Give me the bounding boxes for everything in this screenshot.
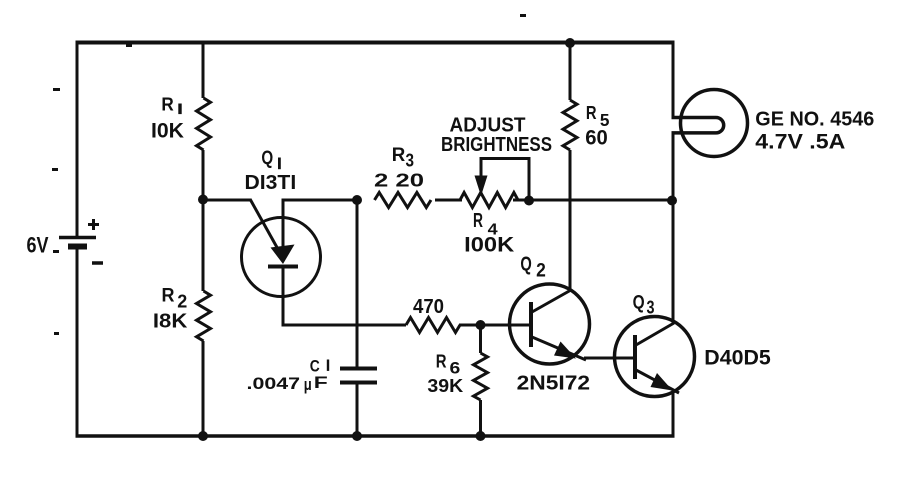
svg-text:R: R [162, 286, 175, 307]
battery minus sign [92, 261, 103, 265]
transistor Q2 circle [510, 284, 590, 364]
wire node C to Q2 base [480, 324, 531, 327]
svg-text:4.7V .5A: 4.7V .5A [755, 131, 845, 154]
Q1 anode lead from top wire [282, 199, 285, 250]
resistor R1 [197, 98, 211, 150]
transistor Q1 circle [242, 218, 321, 297]
svg-text:Q: Q [520, 254, 531, 276]
wire R5 bottom to Q2 collector [569, 150, 572, 291]
wire R5 top lead [569, 42, 572, 100]
label Q1 [261, 147, 280, 169]
resistor R3 [375, 193, 432, 208]
wire R3 to R4 [435, 199, 462, 202]
R4 wiper arrow [475, 158, 488, 196]
node A junction (R1/R2/Q1 gate) [198, 195, 208, 205]
svg-text:3: 3 [406, 151, 415, 171]
lamp filament loop [672, 118, 724, 133]
transistor Q3 circle [615, 317, 695, 397]
wire top rail [76, 41, 675, 45]
svg-text:C: C [310, 357, 320, 375]
svg-text:R: R [436, 352, 447, 372]
svg-text:R: R [586, 102, 597, 123]
label .0047uF [247, 374, 328, 394]
wire R1 top lead [202, 42, 205, 98]
node lamp bottom junction [667, 196, 677, 206]
svg-text:2N5I72: 2N5I72 [517, 373, 591, 395]
Q1 gate diagonal lead [250, 199, 279, 251]
svg-text:R: R [392, 144, 406, 166]
svg-text:Q: Q [261, 147, 273, 169]
wire Q1 cathode to 470 [282, 324, 406, 327]
wire C1 to bottom rail [356, 382, 359, 436]
label Q2 [520, 254, 545, 282]
svg-text:BRIGHTNESS: BRIGHTNESS [441, 134, 552, 156]
wire lamp bottom lead [672, 132, 675, 201]
Q2 base bar [529, 302, 533, 347]
svg-text:Q: Q [633, 291, 645, 313]
resistor 470 [406, 318, 460, 333]
node R4 bracket junction [524, 196, 534, 206]
node C junction (470/R6/Q2 base) [476, 320, 486, 330]
label R3 [392, 144, 414, 171]
wire R4 to lamp node [513, 199, 673, 202]
label C1 [310, 357, 329, 375]
Q3 collector lead [636, 323, 674, 345]
label R5 [586, 102, 610, 130]
svg-text:6V: 6V [27, 233, 49, 258]
Q3 emitter lead with arrow [636, 370, 679, 393]
wire 470 to node C [459, 324, 481, 327]
Q3 base bar [633, 335, 637, 379]
R4 wiper bracket [480, 157, 530, 200]
potentiometer R4 [460, 193, 518, 208]
speckle marks (scan artifacts) [52, 14, 526, 335]
wire left rail upper (battery positive lead) [76, 41, 79, 236]
svg-text:R: R [161, 94, 173, 114]
wire R2 bottom lead [202, 341, 205, 436]
wire Q1 anode to node B [282, 199, 359, 202]
svg-text:I00K: I00K [464, 233, 514, 256]
svg-text:2: 2 [177, 290, 187, 311]
battery plus sign [88, 219, 99, 230]
capacitor C1 bottom plate [340, 381, 377, 385]
wire node C to R6 [479, 325, 482, 353]
label R4 [473, 210, 498, 238]
svg-text:.0047: .0047 [247, 374, 301, 393]
svg-text:I8K: I8K [153, 309, 188, 332]
resistor R6 [474, 353, 488, 400]
node R2 bottom junction [198, 431, 208, 441]
svg-text:μ: μ [304, 375, 312, 394]
wire bottom rail [76, 434, 675, 438]
wire lamp top lead [672, 41, 675, 119]
Q2 emitter lead with arrow [532, 337, 586, 360]
svg-text:39K: 39K [427, 375, 463, 396]
junction C1 bottom [352, 431, 362, 441]
capacitor C1 top plate [340, 367, 377, 371]
Q2 collector lead [532, 290, 571, 312]
lamp DS1 circle [681, 90, 748, 157]
svg-text:D40D5: D40D5 [704, 347, 771, 370]
node R6 bottom junction [476, 431, 486, 441]
wire R1 bottom to node A [202, 150, 205, 200]
svg-text:GE NO. 4546: GE NO. 4546 [755, 107, 874, 130]
resistor R2 [197, 291, 211, 341]
battery B1 negative plate [68, 244, 87, 250]
svg-text:DI3TI: DI3TI [245, 172, 297, 194]
resistor R5 [563, 100, 577, 150]
svg-text:2 20: 2 20 [374, 170, 424, 191]
label Q3 [633, 291, 655, 317]
wire node A to Q1 gate [202, 199, 251, 202]
wire node B down to C1 [356, 200, 359, 368]
node top rail / R5 junction [565, 38, 575, 48]
svg-text:F: F [314, 374, 328, 392]
svg-text:I0K: I0K [151, 119, 184, 142]
node B junction (Q1 anode / C1 / R3) [352, 195, 362, 205]
label R1 [161, 94, 181, 114]
svg-text:470: 470 [413, 296, 444, 318]
label R6 [436, 352, 461, 378]
wire Q3 emitter to bottom rail [672, 392, 675, 437]
wire R6 bottom lead [479, 400, 482, 436]
Q1 cathode lead down [282, 266, 285, 327]
Q1 cathode bar [268, 265, 298, 269]
svg-text:R: R [473, 210, 483, 232]
svg-text:60: 60 [585, 127, 608, 150]
wire Q2 emitter to Q3 base [584, 357, 635, 360]
label R2 [162, 286, 188, 312]
wire left rail lower (battery negative lead) [76, 245, 79, 438]
wire node A to R2 [202, 200, 205, 291]
battery B1 6V positive plate [59, 236, 96, 240]
svg-text:2: 2 [536, 261, 546, 282]
wire Q3 collector to lamp node [672, 200, 675, 324]
Q1 diode triangle [271, 245, 295, 265]
svg-text:3: 3 [647, 297, 655, 318]
